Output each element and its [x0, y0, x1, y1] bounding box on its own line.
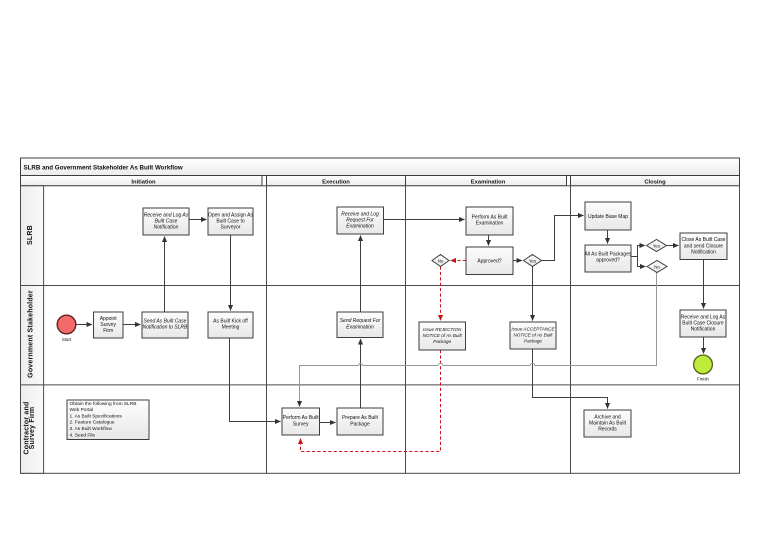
- svg-text:Built Case to: Built Case to: [216, 219, 245, 225]
- svg-text:Finish: Finish: [697, 377, 709, 382]
- svg-text:Appoint: Appoint: [100, 316, 118, 322]
- connector Perform Examination down to Approved?: [488, 235, 490, 246]
- connector Yes diamond up and right to Update Base Map: [542, 216, 584, 261]
- svg-text:Issue ACCEPTANCE: Issue ACCEPTANCE: [511, 326, 555, 331]
- connector ACCEPTANCE down and right to Archive and Maintain: [533, 349, 608, 409]
- lane label Government Stakeholder: [28, 290, 35, 378]
- svg-text:Package: Package: [524, 339, 542, 344]
- svg-text:NOTICE of As Built: NOTICE of As Built: [423, 333, 463, 338]
- task R11 As Built Kick off Meeting: [208, 312, 253, 338]
- svg-text:approved?: approved?: [596, 258, 620, 264]
- svg-text:Examination: Examination: [476, 221, 504, 227]
- svg-text:Send Request For: Send Request For: [340, 318, 381, 324]
- connector Open and Assign down to As Built Kick off Meeting: [230, 235, 232, 311]
- svg-text:Survey Firm: Survey Firm: [29, 407, 36, 450]
- svg-text:Receive and Log: Receive and Log: [341, 211, 379, 217]
- svg-text:3. As Built Workflow: 3. As Built Workflow: [70, 426, 113, 432]
- lane label SLRB: [27, 225, 34, 245]
- connector Approved? to Yes diamond: [513, 260, 522, 262]
- connector Update Base Map down to All As Built Packages approved?: [607, 230, 609, 244]
- svg-text:No: No: [654, 264, 660, 269]
- svg-text:4. Seed File: 4. Seed File: [70, 432, 96, 438]
- phase divider Execution/Examination: [405, 186, 407, 474]
- swimlane body frame: [21, 186, 740, 474]
- task R3 Receive and Log Request For Examination: [337, 207, 384, 234]
- diamond D2 Yes: [524, 255, 542, 267]
- task R8 Close As Built Case and send Closure Notification: [680, 233, 727, 260]
- task R9 Appoint Survey Firm: [94, 312, 124, 338]
- svg-text:Initiation: Initiation: [131, 179, 156, 185]
- svg-text:Examination: Examination: [346, 224, 374, 230]
- task R10 Send As Built Case Notification to SLRB: [142, 312, 188, 338]
- task R15 Receive and Log As Built Case Closure Notification: [680, 310, 726, 337]
- svg-text:Prepare As Built: Prepare As Built: [342, 415, 378, 421]
- svg-text:Records: Records: [598, 427, 617, 433]
- svg-text:Meeting: Meeting: [222, 325, 240, 331]
- finish event circle: [694, 355, 713, 381]
- connector No diamond loop back to Perform As Built Survey: [300, 273, 657, 407]
- svg-text:Open and Assign As: Open and Assign As: [208, 212, 254, 218]
- svg-text:Perform As Built: Perform As Built: [283, 415, 319, 421]
- svg-text:Archive and: Archive and: [594, 414, 621, 420]
- svg-text:SLRB and Government Stakeholde: SLRB and Government Stakeholder As Built…: [24, 165, 183, 172]
- svg-text:Yes: Yes: [653, 243, 661, 248]
- connector Receive and Log to Open and Assign: [189, 219, 207, 221]
- start event circle: [57, 315, 76, 342]
- svg-text:Survey: Survey: [100, 322, 116, 328]
- svg-text:Update Base Map: Update Base Map: [588, 214, 628, 220]
- title bar: SLRB and Government Stakeholder As Built Workflow: [21, 158, 740, 176]
- task R16 Perform As Built Survey: [282, 408, 320, 435]
- svg-text:Notification: Notification: [154, 225, 179, 231]
- connector Send Request up to Receive and Log Request: [360, 236, 362, 313]
- svg-text:Notification to SLRB: Notification to SLRB: [143, 325, 188, 331]
- task R1 Receive and Log As Built Case Notification: [143, 208, 189, 235]
- connector Approved? to No diamond (red dashed): [451, 260, 467, 262]
- connector All approved? split to No diamond: [631, 257, 646, 267]
- svg-text:Receive and Log As: Receive and Log As: [681, 314, 726, 320]
- connector Start to Appoint Survey Firm: [76, 324, 92, 326]
- svg-text:NOTICE of As Built: NOTICE of As Built: [513, 333, 553, 338]
- connector Receive Closure down to Finish: [703, 337, 705, 354]
- note box Obtain the following from SLRB Web Portal: [67, 400, 149, 440]
- phase divider Initiation/Execution: [266, 186, 268, 474]
- svg-text:Obtain the following from SLRB: Obtain the following from SLRB: [70, 401, 137, 407]
- wire hop over vertical at x=360.5: [359, 364, 363, 366]
- svg-text:Notification: Notification: [691, 250, 716, 256]
- task R13 Issue REJECTION NOTICE of As Built Package: [419, 322, 466, 350]
- svg-text:Request For: Request For: [346, 218, 374, 224]
- svg-text:Survey: Survey: [293, 421, 309, 427]
- svg-text:Package: Package: [350, 421, 370, 427]
- connector Kick off Meeting to Perform As Built Survey: [230, 338, 281, 422]
- svg-text:Approved?: Approved?: [477, 259, 501, 265]
- connector No diamond down to Issue REJECTION NOTICE (red dashed): [440, 267, 442, 321]
- svg-text:Web Portal: Web Portal: [70, 407, 94, 413]
- task R12 Send Request For Examination: [337, 312, 383, 338]
- phase header Examination: [406, 176, 567, 186]
- svg-text:Closing: Closing: [644, 179, 666, 185]
- svg-text:No: No: [438, 258, 444, 263]
- task R7 All As Built Packages approved?: [585, 245, 632, 272]
- svg-text:Built Case: Built Case: [155, 219, 178, 225]
- diamond D4 No: [647, 261, 667, 273]
- svg-text:As Built Kick off: As Built Kick off: [213, 318, 248, 324]
- svg-text:Yes: Yes: [529, 258, 537, 263]
- svg-text:Maintain As Built: Maintain As Built: [589, 421, 627, 427]
- task R4 Perform As Built Examination: [466, 207, 513, 235]
- svg-text:Send As Built Case: Send As Built Case: [144, 318, 187, 324]
- svg-text:Perform As Built: Perform As Built: [472, 214, 508, 220]
- task R17 Prepare As Built Package: [337, 408, 383, 435]
- connector Appoint Survey Firm to Send As Built Case Notification: [123, 324, 141, 326]
- phase header Closing: [571, 176, 740, 186]
- task R18 Archive and Maintain As Built Records: [584, 410, 631, 437]
- connector Perform As Built Survey to Prepare As Built Package: [320, 422, 336, 424]
- svg-text:Examination: Examination: [346, 324, 374, 330]
- svg-text:Execution: Execution: [322, 179, 350, 185]
- decision R5 Approved?: [466, 247, 513, 275]
- svg-text:1. As Built Specifications: 1. As Built Specifications: [70, 413, 123, 419]
- lane label Contractor and Survey Firm: [24, 402, 37, 455]
- svg-text:Firm: Firm: [103, 328, 113, 334]
- connector Send Notification up to Receive and Log: [164, 237, 166, 313]
- connector Close As Built Case down to Receive and Log Closure: [703, 260, 705, 309]
- connector Yes diamond to Close As Built Case: [667, 245, 679, 247]
- svg-text:All As Built Packages: All As Built Packages: [585, 251, 632, 257]
- svg-text:Government Stakeholder: Government Stakeholder: [28, 290, 35, 378]
- diamond D3 Yes: [647, 240, 667, 252]
- svg-text:Built Case Closure: Built Case Closure: [682, 321, 724, 327]
- svg-text:and send Closure: and send Closure: [684, 243, 723, 249]
- task R6 Update Base Map: [585, 202, 631, 230]
- lane divider Government Stakeholder / Contractor: [21, 384, 740, 386]
- phase header Execution: [267, 176, 406, 186]
- svg-text:2. Feature Catalogue: 2. Feature Catalogue: [70, 420, 115, 426]
- connector REJECTION loop back to Perform As Built Survey (red dashed): [301, 350, 441, 452]
- svg-text:SLRB: SLRB: [27, 225, 34, 245]
- diamond D1 No: [432, 255, 449, 267]
- connector Receive and Log Request to Perform As Built Examination: [384, 219, 465, 221]
- svg-text:Close As Built Case: Close As Built Case: [682, 237, 726, 243]
- svg-text:Receive and Log As: Receive and Log As: [144, 212, 189, 218]
- svg-text:Notification: Notification: [691, 327, 716, 333]
- wire hop over vertical at x=533: [530, 363, 534, 365]
- svg-text:Surveyor: Surveyor: [220, 225, 240, 231]
- wire hop over red dashed at x=441: [438, 363, 442, 365]
- svg-text:Examination: Examination: [471, 179, 506, 185]
- task R14 Issue ACCEPTANCE NOTICE of As Built Package: [510, 322, 556, 349]
- connector Prepare As Built Package up to Send Request For Examination: [360, 339, 362, 408]
- connector Yes diamond down to Issue ACCEPTANCE NOTICE: [532, 267, 534, 321]
- lane divider SLRB / Government Stakeholder: [21, 285, 740, 287]
- phase header Initiation: [21, 176, 263, 186]
- connector All approved? split to Yes diamond: [631, 246, 645, 257]
- lane label column: [21, 186, 44, 474]
- svg-text:Package: Package: [433, 339, 451, 344]
- svg-text:Issue REJECTION: Issue REJECTION: [423, 327, 462, 332]
- phase divider Examination/Closing: [570, 186, 572, 474]
- svg-text:Start: Start: [62, 337, 72, 342]
- task R2 Open and Assign As Built Case to Surveyor: [208, 208, 254, 235]
